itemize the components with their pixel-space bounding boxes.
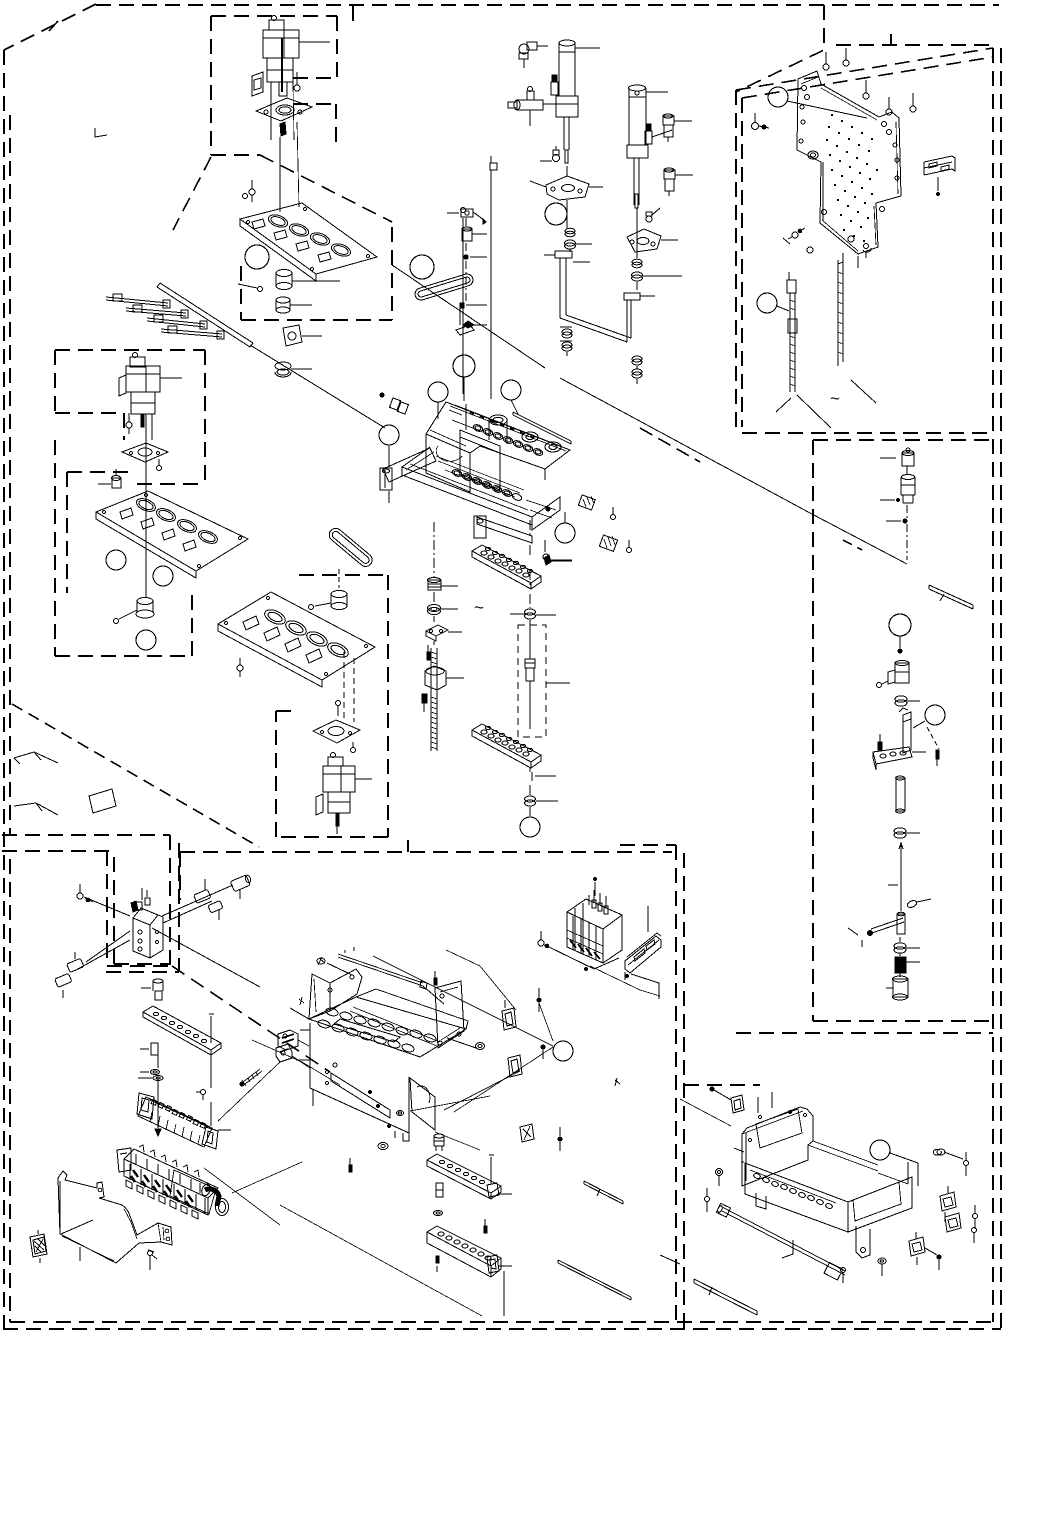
svg-text:~: ~	[830, 389, 840, 408]
svg-text:~: ~	[474, 598, 484, 617]
